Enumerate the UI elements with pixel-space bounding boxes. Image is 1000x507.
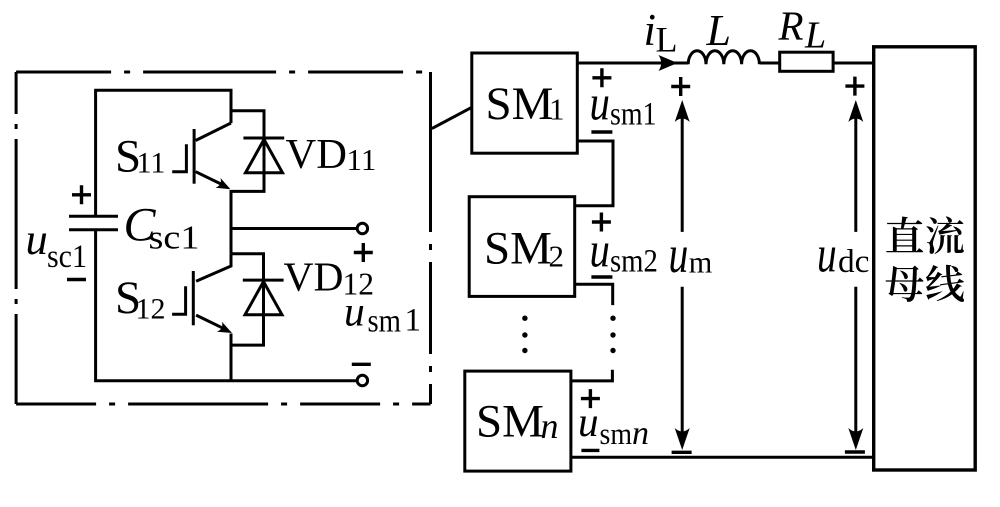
svg-text:u: u xyxy=(590,75,610,131)
svg-text:u: u xyxy=(590,222,610,278)
svg-text:sm: sm xyxy=(368,304,402,340)
svg-text:dc: dc xyxy=(838,244,870,280)
svg-text:11: 11 xyxy=(137,147,166,180)
svg-text:sc1: sc1 xyxy=(47,239,87,275)
svg-text:sm2: sm2 xyxy=(610,244,658,280)
svg-text:u: u xyxy=(578,400,599,446)
svg-text:SM: SM xyxy=(486,78,554,130)
svg-text:VD: VD xyxy=(284,254,344,300)
svg-text:L: L xyxy=(804,15,826,57)
svg-text:1: 1 xyxy=(405,303,422,339)
svg-text:L: L xyxy=(656,20,678,60)
svg-text:sc1: sc1 xyxy=(149,220,200,257)
svg-text:2: 2 xyxy=(549,238,565,273)
svg-text:VD: VD xyxy=(286,131,347,178)
svg-text:SM: SM xyxy=(476,396,544,448)
svg-text:11: 11 xyxy=(347,142,377,177)
svg-text:sm1: sm1 xyxy=(610,96,657,132)
svg-text:R: R xyxy=(778,3,804,49)
svg-text:sm: sm xyxy=(600,416,633,451)
svg-text:1: 1 xyxy=(549,92,565,127)
svg-text:n: n xyxy=(541,406,559,446)
svg-text:n: n xyxy=(632,415,649,452)
svg-text:m: m xyxy=(689,245,713,280)
svg-text:12: 12 xyxy=(136,293,166,326)
svg-text:u: u xyxy=(669,226,689,284)
svg-text:L: L xyxy=(706,6,731,55)
svg-text:u: u xyxy=(344,290,365,336)
svg-text:u: u xyxy=(26,215,48,264)
svg-text:i: i xyxy=(644,5,657,55)
svg-text:u: u xyxy=(817,227,837,284)
svg-text:SM: SM xyxy=(484,223,552,275)
